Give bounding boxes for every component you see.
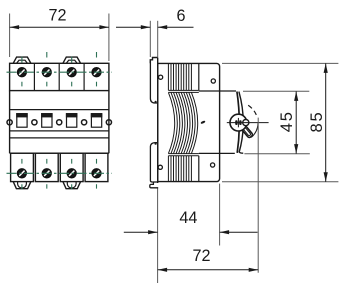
- dim line 72 bottom: [158, 268, 259, 272]
- screw hole top-right: [211, 79, 215, 83]
- shoulder bottom: [199, 152, 235, 154]
- screw pole1 bottom: [17, 169, 26, 178]
- vert marks below top screws: [22, 82, 97, 87]
- terminal divider 3: [83, 63, 85, 90]
- handle pole 2: [42, 114, 52, 128]
- centerline top screw row: [7, 71, 113, 73]
- ext line 45 bottom: [244, 153, 309, 155]
- bottom tab pole 1: [13, 182, 31, 189]
- screw pole2 bottom: [42, 169, 51, 178]
- svg-text:6: 6: [176, 7, 185, 25]
- body side walls: [10, 91, 109, 154]
- vert marks above bottom screws: [22, 159, 97, 164]
- pole-gap circle right edge: [106, 120, 111, 125]
- pin ellipse on flat face: [200, 120, 205, 124]
- clip bottom foot: [150, 182, 158, 188]
- pole-gap circle 3-4: [82, 120, 87, 125]
- screw pole4 bottom: [92, 169, 101, 178]
- vert mark above pole2: [46, 52, 48, 58]
- ext line 6 right: [157, 21, 159, 57]
- ext line 44 right: [219, 184, 221, 246]
- teal centre marks front view: [22, 52, 97, 189]
- handle pole 3: [67, 114, 77, 128]
- vert mark above pole4: [96, 52, 98, 58]
- svg-text:44: 44: [179, 209, 197, 227]
- svg-text:85: 85: [308, 111, 326, 133]
- bottom terminal boxes: [11, 153, 108, 189]
- rib shelf top lines: [168, 90, 198, 92]
- dim 44 arrows: [124, 230, 258, 234]
- toggle swing arc dashed: [248, 105, 252, 108]
- terminal row top outline: [10, 63, 109, 90]
- hub centerline horizontal: [227, 122, 269, 124]
- panel line lower: [10, 137, 109, 139]
- terminal divider 2: [58, 63, 60, 90]
- hub screw slot right: [239, 120, 241, 125]
- toggle lever OFF position: [241, 125, 253, 138]
- dim line 85: [324, 63, 328, 181]
- front face shoulders: [199, 91, 236, 153]
- toggle tip cylinder: [243, 120, 249, 126]
- ribs: [168, 63, 197, 181]
- svg-text:45: 45: [278, 110, 296, 132]
- vert mark above pole3: [71, 57, 73, 63]
- screw hole top-left: [159, 75, 163, 79]
- bottom terminal box 2: [35, 153, 58, 181]
- svg-text:72: 72: [48, 6, 66, 24]
- screw pole2 top: [42, 68, 51, 77]
- terminal divider 1: [33, 63, 35, 90]
- bottom terminal box 4: [85, 153, 108, 181]
- breaker body outline: [158, 63, 220, 181]
- vert mark above pole1: [21, 57, 23, 63]
- front crescent: [237, 92, 243, 154]
- bottom terminal box 1: [11, 153, 34, 181]
- handle row: [7, 114, 112, 128]
- dim 6 arrows: [116, 25, 194, 29]
- dim line 45: [294, 91, 298, 153]
- top clip tab pole 1: [13, 57, 31, 63]
- vert marks below bottom screws: [22, 184, 97, 189]
- handle pole 4: [91, 114, 101, 128]
- centerline bottom screw row: [7, 172, 113, 174]
- DIN clip: [150, 58, 158, 188]
- bottom tab pole 3: [63, 182, 81, 189]
- ext line 85 top: [222, 62, 338, 64]
- ext line front72 left: [9, 14, 11, 58]
- dim line 72 top: [10, 25, 109, 29]
- panel line below handles: [10, 130, 109, 132]
- hub screw slot left: [235, 120, 237, 125]
- ext line 85 bottom: [222, 181, 338, 183]
- screw pole3 bottom: [67, 169, 76, 178]
- screw pole1 top: [17, 68, 26, 77]
- hub cross vertical: [237, 118, 239, 127]
- top clip tab pole 3: [63, 57, 81, 63]
- screw pole4 top: [92, 68, 101, 77]
- screw pole3 top: [67, 68, 76, 77]
- toggle swing arc solid: [251, 123, 258, 138]
- toggle hub: [230, 114, 247, 131]
- screw hole bottom-right: [211, 163, 215, 167]
- rib zone right boundary: [198, 63, 200, 181]
- ext line 44-72 left: [157, 189, 159, 284]
- clip plate: [157, 58, 159, 184]
- pole-gap circle 2-3: [57, 120, 62, 125]
- handle pole 1: [17, 114, 27, 128]
- ext line 45 top: [243, 90, 309, 92]
- ext line 72 right: [257, 118, 259, 273]
- pole-gap circle left edge: [7, 120, 12, 125]
- pole-gap circle 1-2: [32, 120, 37, 125]
- body bottom line: [10, 152, 109, 154]
- bottom terminal box 3: [60, 153, 83, 181]
- rib shelf bottom lines: [168, 154, 198, 156]
- ext line front72 right: [108, 14, 110, 62]
- shoulder top: [199, 90, 236, 92]
- teal centerlines over screws: [7, 72, 113, 173]
- panel line upper: [10, 109, 109, 111]
- screws: top row: [17, 68, 101, 178]
- ext line 6 left: [149, 21, 151, 57]
- clip top hook: [150, 58, 157, 64]
- screw hole bottom-left: [158, 165, 162, 169]
- svg-text:72: 72: [192, 247, 210, 265]
